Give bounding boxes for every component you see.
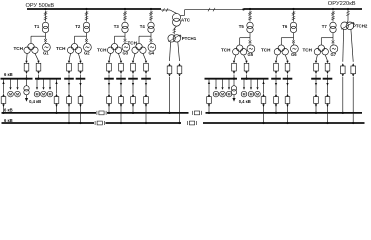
svg-text:G2: G2 — [84, 51, 90, 56]
svg-text:ТСН: ТСН — [261, 48, 271, 53]
svg-text:6 кВ: 6 кВ — [4, 107, 13, 112]
svg-text:М: М — [256, 93, 259, 97]
svg-text:Т6: Т6 — [282, 24, 288, 29]
svg-text:М: М — [228, 93, 231, 97]
svg-text:ОРУ220кВ: ОРУ220кВ — [328, 1, 356, 7]
svg-text:М: М — [243, 93, 246, 97]
svg-text:ТСН: ТСН — [97, 48, 107, 53]
svg-text:G3: G3 — [123, 51, 129, 56]
svg-text:М: М — [9, 93, 12, 97]
svg-text:G6: G6 — [291, 52, 297, 57]
svg-text:ТСН: ТСН — [14, 46, 24, 51]
svg-text:ТСН: ТСН — [221, 48, 231, 53]
svg-text:Т2: Т2 — [75, 24, 81, 29]
svg-text:РТСН1: РТСН1 — [182, 36, 197, 41]
svg-text:G7: G7 — [331, 52, 337, 57]
svg-text:6 кВ: 6 кВ — [4, 72, 13, 77]
svg-text:М: М — [221, 93, 224, 97]
svg-text:М: М — [49, 93, 52, 97]
svg-text:0,4 кВ: 0,4 кВ — [239, 99, 251, 104]
svg-text:АТС: АТС — [181, 18, 191, 23]
svg-text:ТСН: ТСН — [56, 46, 66, 51]
svg-text:Т4: Т4 — [140, 24, 146, 29]
svg-text:Т1: Т1 — [34, 24, 40, 29]
svg-text:ТСН: ТСН — [128, 40, 138, 45]
svg-text:М: М — [16, 93, 19, 97]
svg-text:G5: G5 — [248, 52, 254, 57]
svg-text:ТСН: ТСН — [303, 48, 313, 53]
svg-text:М: М — [42, 93, 45, 97]
svg-text:0,4 кВ: 0,4 кВ — [29, 99, 41, 104]
svg-text:Т7: Т7 — [322, 24, 328, 29]
svg-text:М: М — [250, 93, 253, 97]
svg-text:G4: G4 — [149, 51, 155, 56]
svg-text:М: М — [215, 93, 218, 97]
svg-text:Т3: Т3 — [114, 24, 120, 29]
svg-text:М: М — [36, 93, 39, 97]
svg-text:РТСН2: РТСН2 — [353, 24, 368, 29]
svg-text:G1: G1 — [43, 51, 49, 56]
svg-text:Т5: Т5 — [239, 24, 245, 29]
